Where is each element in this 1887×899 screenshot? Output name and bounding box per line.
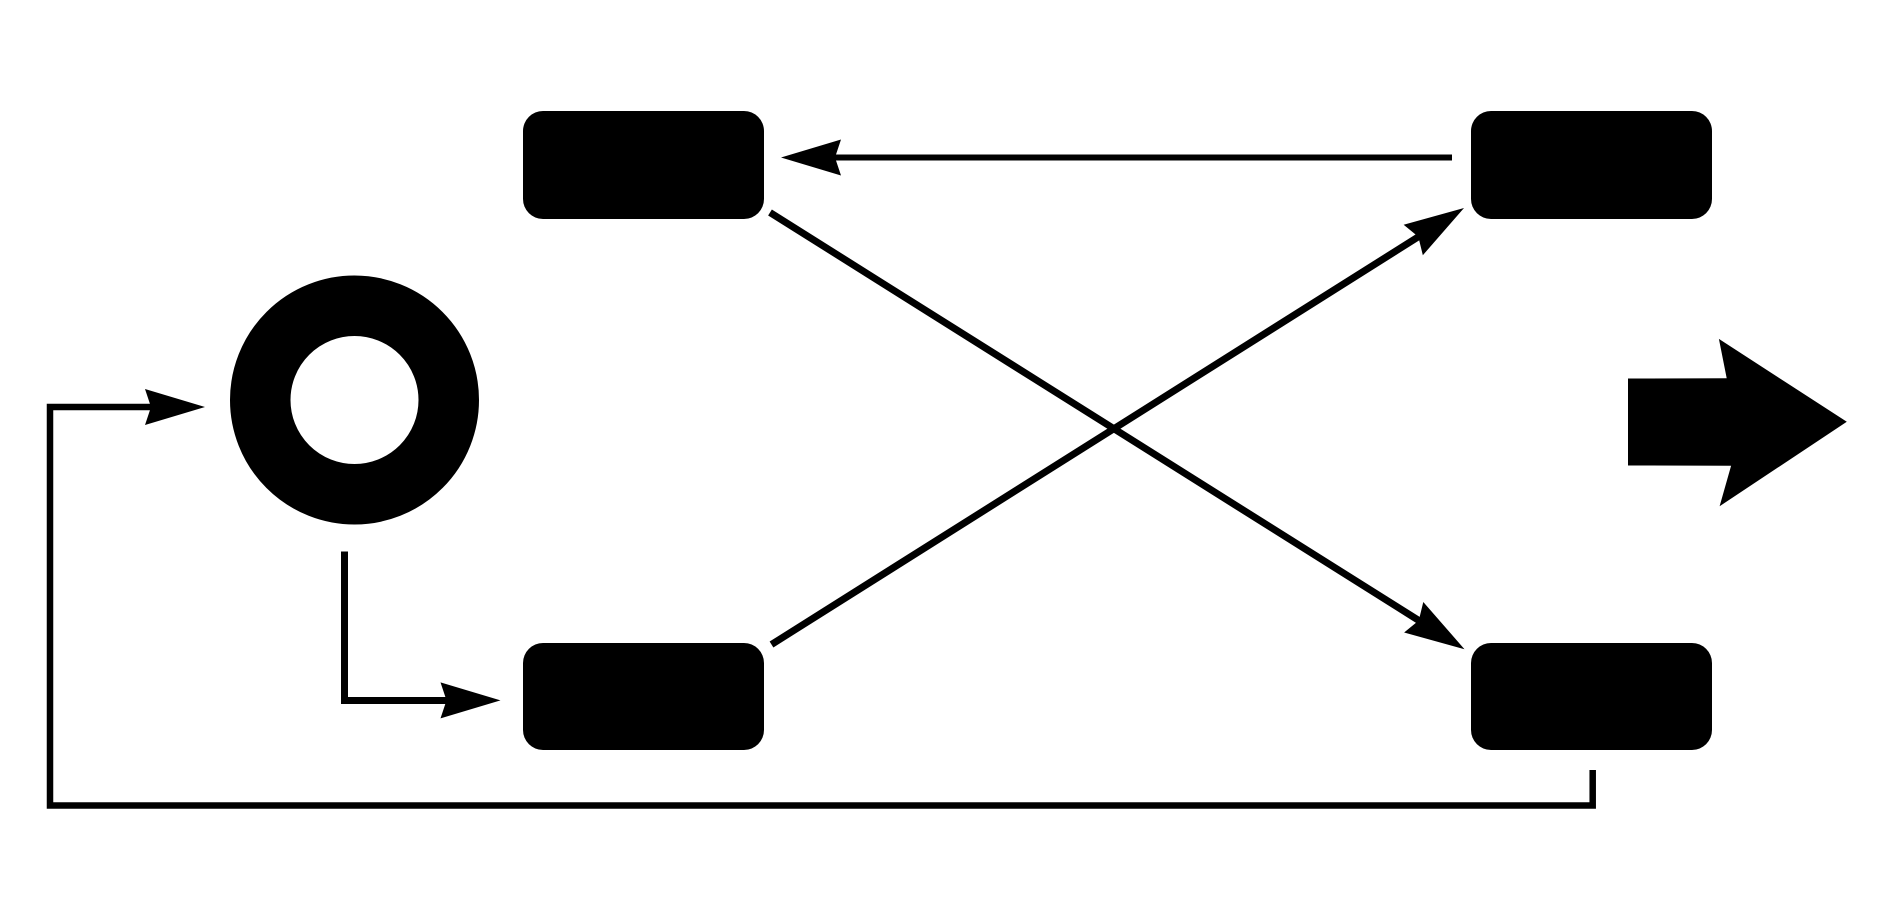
wire: elbow from donut down then right to bottom-left box: [345, 552, 451, 701]
arrowhead pointing right into bottom-left box: [441, 682, 501, 718]
arrowhead pointing right into donut: [145, 389, 205, 425]
box top-right: [1471, 111, 1712, 219]
arrowhead pointing up-right into top-right box: [1404, 193, 1474, 255]
arrowhead pointing down-right into bottom-right box: [1404, 602, 1474, 664]
donut node (start state): [260, 306, 449, 495]
box bottom-right: [1471, 643, 1712, 750]
wire: diagonal from bottom-left box to top-right box: [772, 235, 1422, 645]
big output arrow (right side): [1628, 339, 1847, 506]
box bottom-left: [523, 643, 764, 750]
wire: horizontal arrow shaft from top-right box to top-left box: [831, 155, 1452, 161]
box top-left: [523, 111, 764, 219]
wire: diagonal from top-left box to bottom-right box: [770, 213, 1422, 623]
arrowhead pointing left into top-left box: [781, 140, 841, 176]
wire: feedback loop from bottom-right box down, left, up, into donut: [50, 407, 1593, 806]
